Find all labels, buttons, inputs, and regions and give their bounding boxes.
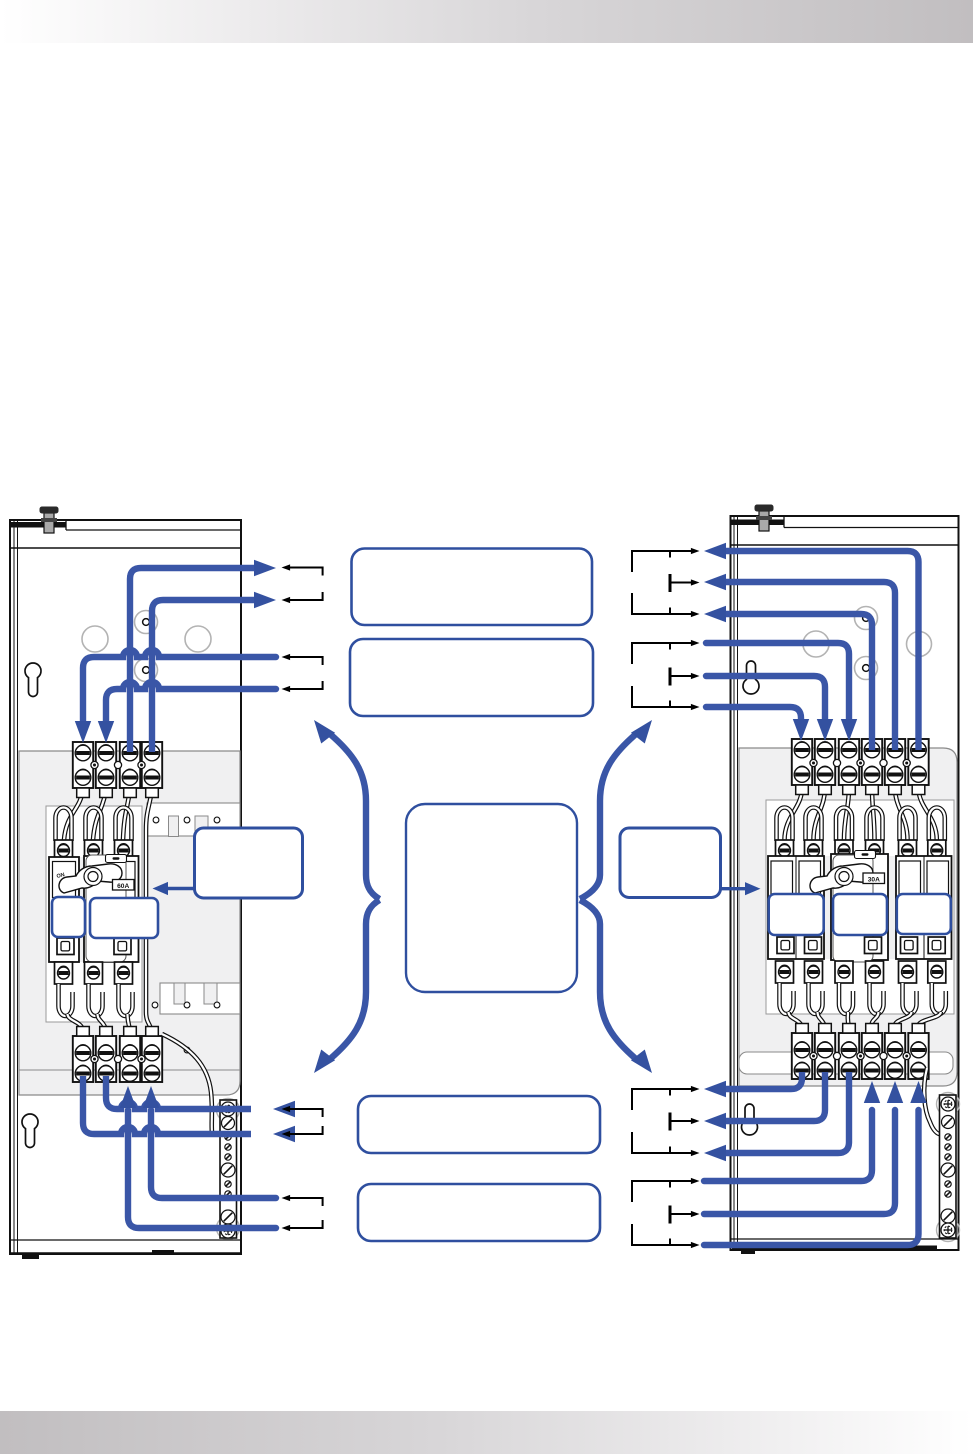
- left enclosure bottom strip: [10, 1240, 241, 1259]
- arrowhead center upper-left: [307, 715, 335, 744]
- right ground bar GB2: [937, 1093, 960, 1242]
- callout tag left CB2: [90, 898, 158, 938]
- right breaker pole2 lower lug: [805, 961, 823, 983]
- arrowhead wire right generator L2: [817, 719, 833, 741]
- left ground wire: [162, 1034, 212, 1133]
- svg-text:30A: 30A: [868, 877, 880, 884]
- left breaker pole3 lower lug: [115, 962, 133, 984]
- right breaker pole5 lower lug: [899, 961, 917, 983]
- right breaker pole2 top wire loop: [806, 808, 822, 842]
- left breaker pole1 upper lug: [55, 840, 73, 861]
- right pole5 wire to bottom terminal: [895, 1012, 912, 1027]
- right breaker pole5 top wire loop: [900, 808, 916, 842]
- right breaker top label tag: [855, 851, 876, 859]
- left breaker pole1 bottom wire loop: [59, 984, 73, 1016]
- left breaker center module: [86, 855, 126, 962]
- right top terminal block TB3 position 5: [885, 739, 905, 795]
- right breaker test button D7: [928, 937, 945, 954]
- left breaker 60A rating label: [113, 880, 135, 891]
- right keyhole lower: [742, 1104, 758, 1135]
- arrowhead wire right ground: [887, 1081, 903, 1103]
- right breaker pole1 bottom wire loop: [780, 983, 794, 1014]
- arrowhead center lower-left: [307, 1049, 335, 1078]
- TB1 divider detail: [91, 761, 98, 768]
- TB2 divider detail: [91, 1055, 98, 1062]
- right breaker test button D4: [805, 937, 822, 954]
- left wire terminal3-to-breaker: [123, 790, 130, 840]
- blue wire right ground in: [704, 1110, 895, 1214]
- blue wire right load L2: [726, 1072, 825, 1121]
- arrowhead wire left L1: [254, 560, 276, 576]
- left knockout circles: [82, 611, 211, 682]
- blue wire left ground in: [128, 1110, 276, 1228]
- left breaker pole2 top wire loop: [86, 808, 102, 842]
- right top terminal block TB3 position 4: [862, 739, 882, 795]
- reference arrow pair left neutral: [282, 1195, 323, 1231]
- right breaker pole4 upper lug: [866, 840, 884, 861]
- right enclosure lid bolt: [755, 505, 774, 532]
- left breaker pole2 lower lug: [85, 962, 103, 984]
- right breaker unit CB3 body: [768, 856, 824, 959]
- right bottom terminal block TB4 position 6: [908, 1024, 928, 1080]
- callout box center: [406, 804, 577, 992]
- right breaker pole5 bottom wire loop: [903, 983, 917, 1014]
- left breaker top label tag: [106, 855, 127, 863]
- left breaker mounting plate: [46, 806, 142, 1022]
- left keyhole upper: [25, 663, 41, 697]
- blue wire right neutral in: [704, 1110, 872, 1181]
- right pole3 wire to bottom terminal: [848, 1012, 849, 1027]
- arrowhead wire right generator L3: [793, 719, 809, 741]
- bottom gradient banner: [0, 1411, 973, 1454]
- blue wire left load L2: [83, 1076, 251, 1134]
- callout tag left CB1: [52, 897, 85, 937]
- center flow curve upper-left: [330, 734, 380, 899]
- right breaker 30A rating label: [863, 873, 885, 884]
- right wire terminal1-to-breaker: [785, 788, 803, 840]
- center flow curve upper-right: [580, 734, 636, 899]
- left enclosure lid bolt: [40, 507, 59, 534]
- left breaker pole2 upper lug: [85, 840, 103, 861]
- right enclosure cabinet body: [731, 516, 959, 1250]
- right breaker pole4 lower lug: [866, 961, 884, 983]
- reference arrow triple right load: [632, 1086, 700, 1156]
- blue wire right generator L2: [706, 676, 825, 720]
- left bottom terminal block TB2 position 1: [73, 1027, 93, 1083]
- callout tag right CB4: [833, 894, 887, 935]
- right top terminal block TB3 position 2: [815, 739, 835, 795]
- reference arrow pair left utility: [282, 564, 323, 603]
- blue wire right utility L3: [726, 614, 872, 750]
- right breaker pole2 upper lug: [805, 840, 823, 861]
- left breaker unit CB1 body: [49, 857, 79, 962]
- right bottom terminal block TB4 position 5: [885, 1024, 905, 1080]
- right keyhole upper: [743, 661, 759, 694]
- left enclosure inner panel: [19, 751, 240, 1095]
- arrowhead wire right spare: [910, 1081, 926, 1103]
- left breaker pole1 lower lug: [55, 962, 73, 984]
- center flow curve lower-right: [580, 900, 636, 1059]
- left breaker pole3 bottom wire loop: [119, 984, 133, 1016]
- right breaker pole2 bottom wire loop: [809, 983, 823, 1014]
- top gradient banner: [0, 0, 973, 43]
- right wire terminal6-to-breaker: [919, 788, 937, 840]
- blue wire left neutral in: [151, 1110, 276, 1198]
- left ground bar GB1: [217, 1099, 240, 1240]
- right top terminal block TB3 position 3: [839, 739, 859, 795]
- arrowhead wire left load L2: [273, 1126, 295, 1142]
- reference arrow pair left generator: [282, 654, 323, 692]
- right enclosure flange line: [731, 544, 959, 546]
- right breaker pole6 bottom wire loop: [932, 983, 946, 1014]
- callout box neutral-left: [358, 1184, 600, 1241]
- right wire terminal2-to-breaker: [814, 788, 826, 840]
- blue wire left utility L1: [130, 568, 255, 752]
- right breaker pole1 upper lug: [776, 840, 794, 861]
- reference arrow triple right neutral: [632, 1178, 700, 1248]
- right top terminal block TB3 position 6: [908, 739, 928, 795]
- arrowhead wire right load L2: [704, 1113, 726, 1129]
- arrowhead center upper-right: [631, 715, 659, 744]
- arrowhead wire left L2: [254, 592, 276, 608]
- left breaker pole2 bottom wire loop: [89, 984, 103, 1016]
- right breaker test button D3: [777, 937, 794, 954]
- reference arrow triple right utility: [632, 548, 700, 617]
- callout tag right CB3: [769, 894, 824, 935]
- right bottom terminal block TB4 position 1: [792, 1024, 812, 1080]
- blue wire left utility L2: [152, 600, 255, 752]
- arrowhead wire right L2: [704, 574, 726, 590]
- left enclosure cabinet body: [10, 520, 241, 1254]
- right bottom terminal block TB4 position 2: [815, 1024, 835, 1080]
- right breaker pole6 upper lug: [928, 840, 946, 861]
- left breaker handle tie lever: [59, 864, 122, 893]
- left breaker unit CB2 body: [84, 856, 139, 962]
- left enclosure top cap: [11, 520, 241, 530]
- left top terminal block TB1 position 3: [120, 742, 140, 798]
- left breaker test button D1: [57, 938, 74, 955]
- callout box utility-left: [352, 549, 593, 626]
- left panel upper cutout plate: [147, 803, 240, 837]
- left enclosure flange line: [10, 547, 241, 549]
- left bottom terminal block TB2 position 4: [142, 1027, 162, 1083]
- right breaker pole3 upper lug: [835, 840, 853, 861]
- arrow from left breaker callout: [153, 882, 197, 895]
- left keyhole lower: [22, 1114, 38, 1148]
- right top terminal block TB3 position 1: [792, 739, 812, 795]
- arrowhead wire right generator L1: [841, 719, 857, 741]
- left pole3 wire to bottom terminal: [128, 1014, 131, 1030]
- right enclosure bottom strip: [731, 1239, 959, 1254]
- left bottom terminal block TB2 position 3: [120, 1027, 140, 1083]
- arrowhead wire left ground: [120, 1086, 136, 1108]
- blue wire right load L1: [726, 1072, 802, 1089]
- right wire terminal3-to-breaker: [844, 788, 849, 840]
- right breaker pole6 lower lug: [928, 961, 946, 983]
- TB4 divider detail: [810, 1052, 817, 1059]
- arrowhead wire right load L3: [704, 1145, 726, 1161]
- arrowhead wire right L1: [704, 543, 726, 559]
- right breaker test button D6: [901, 937, 918, 954]
- right breaker unit CB4 body: [831, 854, 888, 960]
- left top terminal block TB1 position 1: [73, 742, 93, 798]
- svg-text:60A: 60A: [117, 883, 129, 890]
- right enclosure top cap: [732, 516, 959, 528]
- right breaker pole3 top wire loop: [836, 808, 852, 842]
- callout box left breaker: [195, 828, 303, 898]
- left breaker pole1 top wire loop: [56, 808, 72, 842]
- right breaker center module: [833, 855, 873, 962]
- right ground wire: [924, 1068, 941, 1135]
- arrowhead wire left generator L1: [75, 721, 91, 743]
- left neutral pass-through wire: [146, 790, 152, 1029]
- TB3 divider detail: [810, 759, 817, 766]
- left bottom terminal block TB2 position 2: [96, 1027, 116, 1083]
- callout tag right CB5: [897, 894, 951, 934]
- left panel lower cutout plate: [152, 983, 240, 1053]
- arrowhead wire right L3: [704, 606, 726, 622]
- left breaker pole3 top wire loop: [116, 808, 132, 842]
- right breaker pole6 top wire loop: [929, 808, 945, 842]
- left breaker pole3 upper lug: [115, 840, 133, 861]
- gray slits between right breaker units: [825, 856, 831, 959]
- blue wire right load L3: [726, 1072, 849, 1153]
- left top terminal block TB1 position 2: [96, 742, 116, 798]
- right breaker pole1 top wire loop: [777, 808, 793, 842]
- arrowhead wire right neutral: [864, 1081, 880, 1103]
- reference arrow pair left load: [282, 1106, 323, 1137]
- gray slit between left breaker units: [80, 857, 84, 962]
- blue wire right generator L3: [706, 707, 801, 720]
- arrowhead wire right load L1: [704, 1081, 726, 1097]
- right bottom terminal block TB4 position 3: [839, 1024, 859, 1080]
- left wire terminal2-to-breaker: [93, 790, 106, 840]
- right breaker mounting plate: [766, 800, 954, 1014]
- left pole2 wire to bottom terminal: [98, 1014, 107, 1030]
- right pole6 wire to bottom terminal: [918, 1012, 940, 1027]
- right breaker unit CB5 body: [896, 856, 952, 959]
- right breaker pole3 lower lug: [835, 961, 853, 983]
- blue wire right spare in: [704, 1110, 919, 1245]
- right bottom terminal block TB4 position 4: [862, 1024, 882, 1080]
- blue wire left generator L2: [106, 682, 276, 722]
- right breaker pole5 upper lug: [899, 840, 917, 861]
- callout box generator-left: [350, 639, 593, 716]
- right breaker pole1 lower lug: [776, 961, 794, 983]
- blue wire right utility L2: [726, 582, 895, 750]
- center flow curve lower-left: [330, 900, 380, 1059]
- callout box load-left: [358, 1096, 600, 1153]
- right enclosure inner panel: [739, 748, 957, 1086]
- left wire terminal1-to-breaker: [64, 790, 83, 840]
- arrow from right breaker callout: [719, 882, 761, 895]
- right knockout circles: [803, 607, 932, 680]
- arrowhead wire left load L1: [273, 1101, 295, 1117]
- callout box right breaker: [620, 828, 721, 898]
- blue wire left generator L1: [83, 650, 276, 722]
- right pole1 wire to bottom terminal: [789, 1012, 803, 1027]
- left top terminal block TB1 position 4: [142, 742, 162, 798]
- left breaker test button D2: [114, 938, 131, 955]
- right breaker handle tie lever: [810, 864, 873, 893]
- arrowhead wire left neutral: [143, 1086, 159, 1108]
- right pole2 wire to bottom terminal: [818, 1012, 826, 1027]
- right pole4 wire to bottom terminal: [872, 1012, 879, 1027]
- arrowhead center lower-right: [631, 1049, 659, 1078]
- blue wire right generator L1: [706, 643, 849, 720]
- blue wire left load L1: [106, 1076, 251, 1109]
- right wire terminal4-to-breaker: [872, 788, 875, 840]
- reference arrow triple right generator: [632, 640, 700, 710]
- right breaker test button D5: [865, 937, 882, 954]
- blue wire right utility L1: [726, 551, 919, 750]
- right wire terminal5-to-breaker: [895, 788, 908, 840]
- left pole1 wire to bottom terminal: [68, 1014, 84, 1030]
- right breaker pole4 top wire loop: [867, 808, 883, 842]
- right panel lower cutout plate: [739, 1052, 953, 1074]
- right breaker pole3 bottom wire loop: [839, 983, 853, 1014]
- arrowhead wire left generator L2: [98, 721, 114, 743]
- right breaker pole4 bottom wire loop: [870, 983, 884, 1014]
